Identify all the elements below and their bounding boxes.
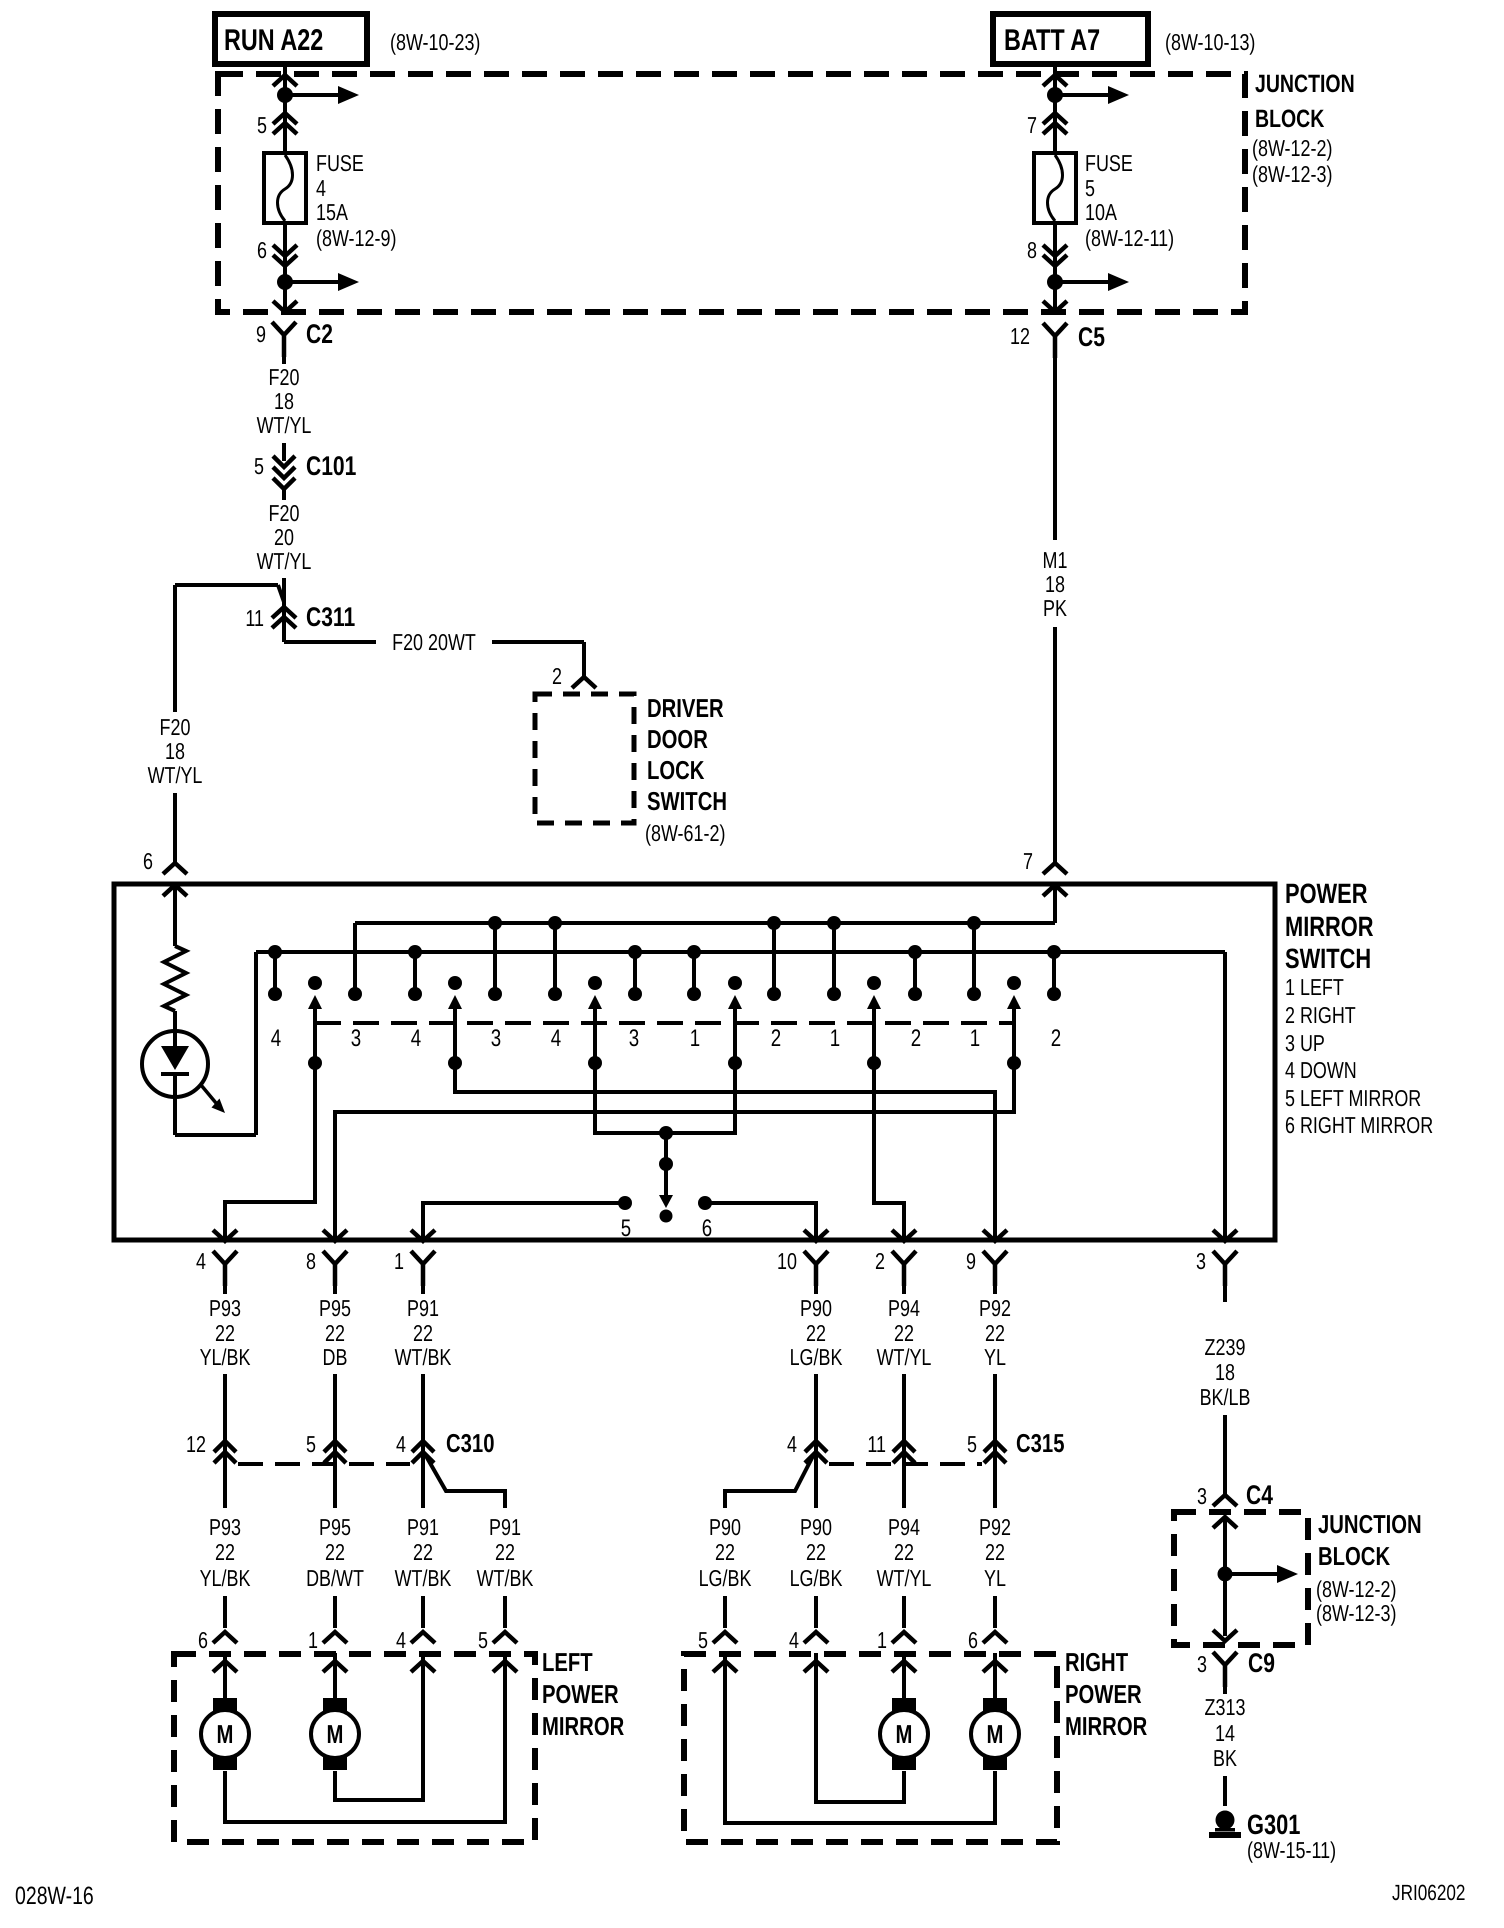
svg-text:F20: F20 [269,500,300,526]
contact from bus B at x1054 [1047,945,1061,1001]
svg-text:POWER: POWER [1065,1679,1142,1709]
svg-text:MIRROR: MIRROR [1065,1711,1147,1741]
bus B wire [256,952,1225,1240]
node ground junction [1218,1565,1299,1583]
svg-text:P94: P94 [888,1514,920,1540]
svg-text:7: 7 [1023,848,1033,874]
svg-text:1: 1 [970,1025,980,1052]
svg-text:18: 18 [165,738,185,764]
svg-text:P92: P92 [979,1295,1011,1321]
svg-text:3: 3 [351,1025,361,1052]
svg-text:5 LEFT MIRROR: 5 LEFT MIRROR [1285,1085,1421,1111]
contact from bus B at x915 [908,945,922,1001]
wire wiper6 to pin 8 [335,1063,1014,1240]
svg-text:11: 11 [867,1431,886,1457]
svg-text:WT/YL: WT/YL [257,548,312,574]
switch pin 10 connector [777,1248,828,1286]
svg-text:LG/BK: LG/BK [790,1344,843,1370]
svg-text:4: 4 [789,1627,799,1653]
svg-text:F20 20WT: F20 20WT [392,629,476,655]
wire wiper1 to pin 4 [225,1063,315,1240]
contact from bus A at x495 [488,916,502,1001]
svg-text:22: 22 [894,1539,914,1565]
svg-text:2: 2 [875,1248,885,1274]
wiper contact at x874 [867,976,881,1070]
svg-text:F20: F20 [160,714,191,740]
left mirror up-down motor M [201,1653,505,1822]
svg-text:Z239: Z239 [1205,1334,1246,1360]
svg-text:POWER: POWER [542,1679,619,1709]
svg-text:9: 9 [966,1248,976,1274]
svg-text:1: 1 [690,1025,700,1052]
svg-text:5: 5 [478,1627,488,1653]
svg-text:Z313: Z313 [1205,1694,1246,1720]
svg-text:4: 4 [551,1025,561,1052]
connector C5 pin 12 [1010,322,1105,358]
wire M1 18 PK [1043,352,1068,863]
svg-text:(8W-12-9): (8W-12-9) [316,225,396,251]
svg-text:11: 11 [245,605,264,631]
junction block entry chevron [273,75,297,86]
switch pin 7 entry [1023,848,1067,874]
svg-text:3: 3 [1196,1248,1206,1274]
fuse 5 label [1085,150,1174,251]
reference (8W-10-23) [390,29,480,55]
svg-text:10: 10 [777,1248,797,1274]
svg-text:WT/BK: WT/BK [395,1565,452,1591]
right power mirror label [1065,1647,1147,1741]
bus A wire [355,923,1055,994]
contact 6 right mirror [698,1196,816,1242]
svg-text:5: 5 [967,1431,977,1457]
svg-text:22: 22 [715,1539,735,1565]
left power mirror enclosure [174,1654,535,1842]
svg-text:5: 5 [621,1215,631,1242]
svg-text:22: 22 [985,1539,1005,1565]
svg-text:2: 2 [552,663,562,689]
svg-text:15A: 15A [316,199,348,225]
pin 8 connector [1027,223,1067,282]
contact from bus B at x635 [628,945,642,1001]
wire branch to pin 6 feed [175,585,284,602]
wire Z313 14 BK [1205,1682,1246,1806]
left mirror pin 4 connector [396,1627,435,1672]
contact from bus A at x974 [967,916,981,1001]
wire P94 lower [877,1474,932,1628]
node junction RUN feed [277,86,359,104]
svg-text:22: 22 [215,1539,235,1565]
svg-text:DB/WT: DB/WT [306,1565,364,1591]
svg-text:18: 18 [274,388,294,414]
svg-text:JRI06202: JRI06202 [1392,1880,1465,1905]
svg-text:5: 5 [306,1431,316,1457]
svg-text:22: 22 [413,1539,433,1565]
svg-text:M: M [896,1719,913,1749]
svg-text:WT/BK: WT/BK [395,1344,452,1370]
svg-text:4 DOWN: 4 DOWN [1285,1057,1357,1083]
switch exit chevron x816 [804,1230,828,1241]
svg-text:C4: C4 [1246,1480,1273,1510]
svg-text:028W-16: 028W-16 [15,1882,94,1910]
svg-text:M: M [987,1719,1004,1749]
wire pin6 to resistor [173,892,177,946]
resistor illumination [164,946,186,1011]
pin 6 connector [257,223,297,282]
wire P95 lower [306,1474,364,1628]
svg-text:7: 7 [1027,112,1037,138]
svg-text:4: 4 [787,1431,797,1457]
svg-text:5: 5 [254,453,264,479]
svg-text:22: 22 [325,1539,345,1565]
svg-text:22: 22 [495,1539,515,1565]
right mirror up-down motor M [816,1653,928,1802]
wiper contact at x455 [448,976,462,1070]
ground G301 [1209,1809,1336,1863]
svg-text:3: 3 [1197,1651,1207,1677]
svg-text:YL/BK: YL/BK [200,1344,251,1370]
fuse 4 label [316,150,396,251]
left power mirror label [542,1647,624,1741]
node common selector [659,1126,673,1223]
svg-text:1 LEFT: 1 LEFT [1285,974,1344,1000]
svg-text:1: 1 [877,1627,887,1653]
contact 5 left mirror [423,1196,632,1242]
svg-text:BK/LB: BK/LB [1200,1384,1251,1410]
svg-text:WT/YL: WT/YL [257,412,312,438]
svg-text:JUNCTION: JUNCTION [1255,70,1355,98]
wiper contact at x735 [728,976,742,1070]
wire LED return to bus B [175,952,256,1135]
junction block exit chevron left [273,301,297,312]
driver door lock switch enclosure [535,694,634,823]
junction block 2 entry chevron [1213,1517,1237,1528]
left mirror pin 6 connector [198,1627,237,1672]
drawing code JRI06202 [1392,1880,1465,1905]
svg-text:12: 12 [186,1431,206,1457]
fuse 5 [1034,153,1076,223]
svg-text:3: 3 [491,1025,501,1052]
svg-text:LG/BK: LG/BK [699,1565,752,1591]
svg-text:4: 4 [411,1025,421,1052]
right mirror pin 5 connector [698,1627,737,1672]
bus A riser to pin 7 [1043,885,1067,923]
svg-text:WT/YL: WT/YL [148,762,203,788]
wire F20 20WT to door lock switch [284,629,584,676]
svg-text:6: 6 [968,1627,978,1653]
node junction fuse 5 output [1047,273,1129,310]
svg-text:2 RIGHT: 2 RIGHT [1285,1002,1356,1028]
svg-text:8: 8 [1027,237,1037,263]
svg-text:P90: P90 [800,1514,832,1540]
switch exit chevron x904 [892,1230,916,1241]
junction block 2 enclosure [1174,1512,1308,1645]
svg-text:22: 22 [894,1320,914,1346]
power feed RUN A22 [215,14,367,64]
svg-text:YL/BK: YL/BK [200,1565,251,1591]
right power mirror enclosure [684,1654,1057,1842]
svg-text:(8W-15-11): (8W-15-11) [1247,1837,1336,1863]
svg-text:M: M [327,1719,344,1749]
junction block 2 exit chevron [1213,1630,1237,1641]
svg-text:POWER: POWER [1285,878,1368,909]
right mirror pin 1 connector [877,1627,916,1672]
junction block entry chevron right [1043,75,1067,86]
svg-text:SWITCH: SWITCH [647,786,727,816]
fuse 4 [264,153,306,223]
svg-text:P90: P90 [800,1295,832,1321]
svg-text:C9: C9 [1248,1648,1275,1678]
wire P93 YL/BK [200,1280,251,1432]
svg-text:BLOCK: BLOCK [1318,1541,1390,1571]
pin 6 inner chevron [163,885,187,946]
svg-text:(8W-12-2): (8W-12-2) [1252,135,1332,161]
svg-text:(8W-12-3): (8W-12-3) [1316,1600,1396,1626]
power mirror switch label [1285,878,1433,1138]
svg-text:WT/YL: WT/YL [877,1565,932,1591]
svg-text:C315: C315 [1016,1428,1064,1458]
contact from bus B at x694 [687,945,701,1001]
svg-text:P92: P92 [979,1514,1011,1540]
svg-text:P93: P93 [209,1514,241,1540]
connector C101 pin 5 [254,451,356,500]
wire P92 lower [979,1474,1011,1628]
node junction fuse 4 output [277,273,359,310]
switch exit chevron x225 [213,1230,237,1241]
node junction BATT feed [1047,86,1129,104]
svg-text:M: M [217,1719,234,1749]
svg-text:1: 1 [308,1627,318,1653]
svg-text:4: 4 [271,1025,281,1052]
connector C9 pin 3 [1197,1648,1275,1687]
svg-text:6: 6 [143,848,153,874]
wire F20 18 WT/YL upper [257,353,312,461]
svg-text:22: 22 [806,1539,826,1565]
switch pin 8 connector [306,1248,347,1286]
wire P93 lower [200,1474,251,1628]
connector C310 [186,1428,494,1474]
svg-text:P93: P93 [209,1295,241,1321]
mechanical coupling line [315,1021,1014,1025]
svg-text:22: 22 [806,1320,826,1346]
svg-text:DOOR: DOOR [647,724,708,754]
svg-text:FUSE: FUSE [316,150,364,176]
contact from bus B at x415 [408,945,422,1001]
svg-text:14: 14 [1215,1720,1235,1746]
wire wiper4 to common [666,1063,735,1133]
svg-text:C101: C101 [306,451,356,481]
svg-text:18: 18 [1215,1359,1235,1385]
wire P91 branch [426,1456,534,1628]
svg-text:LG/BK: LG/BK [790,1565,843,1591]
LED illumination lamp [142,1031,225,1135]
junction block enclosure [218,74,1245,312]
svg-text:2: 2 [771,1025,781,1052]
pin 5 connector [257,112,297,138]
switch exit chevron x1225 [1213,1230,1237,1241]
reference (8W-10-13) [1165,29,1255,55]
svg-text:P95: P95 [319,1514,351,1540]
wiper contact at x1014 [1007,976,1021,1070]
switch exit chevron x423 [411,1230,435,1241]
wiper contact at x595 [588,976,602,1070]
svg-text:C311: C311 [306,602,355,632]
svg-text:8: 8 [306,1248,316,1274]
svg-text:DRIVER: DRIVER [647,693,724,723]
svg-text:M1: M1 [1043,547,1068,573]
svg-text:22: 22 [985,1320,1005,1346]
sheet code 028W-16 [15,1882,94,1910]
left mirror left-right motor M [311,1653,423,1800]
wire wiper2 to pin 9 [455,1063,995,1240]
svg-text:LOCK: LOCK [647,755,705,785]
svg-text:4: 4 [316,175,326,201]
power feed BATT A7 [993,14,1148,64]
right mirror pin 4 connector [789,1627,828,1672]
switch pin 9 connector [966,1248,1007,1286]
svg-text:P90: P90 [709,1514,741,1540]
svg-text:SWITCH: SWITCH [1285,943,1371,974]
svg-text:(8W-10-13): (8W-10-13) [1165,29,1255,55]
svg-text:DB: DB [323,1344,348,1370]
svg-text:JUNCTION: JUNCTION [1318,1509,1422,1539]
svg-text:WT/BK: WT/BK [477,1565,534,1591]
wire wiper3 to common [595,1063,666,1133]
junction block exit chevron right [1043,301,1067,312]
wire F20 20 WT/YL [257,500,312,642]
svg-text:3: 3 [1197,1483,1207,1509]
contact from bus A at x555 [548,916,562,1001]
connector C311 pin 11 [245,602,355,632]
svg-text:6: 6 [198,1627,208,1653]
left mirror pin 1 connector [308,1627,347,1672]
switch pin 4 connector [196,1248,237,1286]
switch pin 2 connector [875,1248,916,1286]
svg-text:12: 12 [1010,323,1030,349]
svg-text:4: 4 [196,1248,206,1274]
wire P91 WT/BK [395,1280,452,1432]
left mirror pin 5 connector [478,1627,517,1672]
connector C315 [787,1428,1064,1474]
wire P91 lower [395,1474,452,1628]
svg-text:(8W-61-2): (8W-61-2) [645,820,725,846]
svg-text:(8W-12-3): (8W-12-3) [1252,161,1332,187]
contact position numbers [271,1025,1061,1052]
svg-text:3: 3 [629,1025,639,1052]
contact from bus B at x275 [268,945,282,1001]
svg-text:6: 6 [257,237,267,263]
wire resistor to LED [173,1011,177,1048]
junction block 2 label [1316,1509,1422,1626]
power mirror switch enclosure [114,884,1275,1240]
switch pin 1 connector [394,1248,435,1286]
svg-text:22: 22 [413,1320,433,1346]
wire P90 branch [699,1456,813,1628]
svg-text:P91: P91 [407,1295,439,1321]
svg-text:5: 5 [257,112,267,138]
svg-text:5: 5 [1085,175,1095,201]
svg-text:MIRROR: MIRROR [542,1711,624,1741]
wiper contact at x315 [308,976,322,1070]
right mirror pin 6 connector [968,1627,1007,1672]
svg-text:2: 2 [911,1025,921,1052]
switch exit chevron x335 [323,1230,347,1241]
svg-text:(8W-12-2): (8W-12-2) [1316,1576,1396,1602]
svg-text:P91: P91 [489,1514,521,1540]
svg-text:MIRROR: MIRROR [1285,911,1374,942]
svg-text:YL: YL [984,1565,1006,1591]
wire RUN A22 to junction block [283,64,287,155]
svg-text:6 RIGHT MIRROR: 6 RIGHT MIRROR [1285,1112,1433,1138]
pin 7 connector [1027,112,1067,138]
svg-text:P95: P95 [319,1295,351,1321]
svg-text:(8W-10-23): (8W-10-23) [390,29,480,55]
svg-text:YL: YL [984,1344,1006,1370]
right mirror left-right motor M [725,1653,1019,1823]
wire F20 18 WT/YL to switch pin 6 [148,585,203,863]
svg-text:10A: 10A [1085,199,1117,225]
svg-text:F20: F20 [269,364,300,390]
driver door lock switch label [645,693,727,846]
svg-text:WT/YL: WT/YL [877,1344,932,1370]
svg-text:FUSE: FUSE [1085,150,1133,176]
wire wiper5 to pin 2 [874,1063,904,1240]
contact from bus A at x774 [767,916,781,1001]
svg-text:22: 22 [325,1320,345,1346]
svg-text:1: 1 [830,1025,840,1052]
svg-text:BATT A7: BATT A7 [1004,24,1100,57]
svg-text:5: 5 [698,1627,708,1653]
svg-text:4: 4 [396,1431,406,1457]
switch exit chevron x995 [983,1230,1007,1241]
wire P95 DB [319,1280,351,1432]
svg-text:(8W-12-11): (8W-12-11) [1085,225,1174,251]
connector C2 pin 9 [256,319,333,357]
wire Z239 18 BK/LB [1200,1280,1251,1495]
wire P90 lower [790,1474,843,1628]
svg-text:18: 18 [1045,571,1065,597]
svg-text:9: 9 [256,321,266,347]
svg-text:3 UP: 3 UP [1285,1030,1325,1056]
svg-text:PK: PK [1043,595,1067,621]
svg-text:G301: G301 [1247,1809,1300,1840]
svg-text:C310: C310 [446,1428,494,1458]
connector pin 2 door lock switch [552,663,596,689]
svg-text:LEFT: LEFT [542,1647,593,1677]
svg-text:1: 1 [394,1248,404,1274]
switch pin 3 connector [1196,1248,1237,1286]
wire P92 YL [979,1280,1011,1432]
svg-text:P94: P94 [888,1295,920,1321]
svg-text:20: 20 [274,524,294,550]
svg-text:6: 6 [702,1215,712,1242]
contact from bus A end [348,987,362,1001]
svg-text:BK: BK [1213,1745,1237,1771]
wire P94 WT/YL [877,1280,932,1432]
svg-text:C2: C2 [306,319,333,349]
svg-text:C5: C5 [1078,322,1105,352]
svg-text:2: 2 [1051,1025,1061,1052]
contact from bus A at x834 [827,916,841,1001]
svg-text:RIGHT: RIGHT [1065,1647,1128,1677]
svg-text:4: 4 [396,1627,406,1653]
wire BATT A7 to junction block [1053,64,1057,155]
svg-text:RUN A22: RUN A22 [224,24,323,57]
wire P90 LG/BK [790,1280,843,1432]
junction block label [1252,70,1355,187]
connector C4 pin 3 [1197,1480,1273,1510]
svg-text:BLOCK: BLOCK [1255,105,1324,133]
wire ground distribution [1223,1517,1227,1636]
